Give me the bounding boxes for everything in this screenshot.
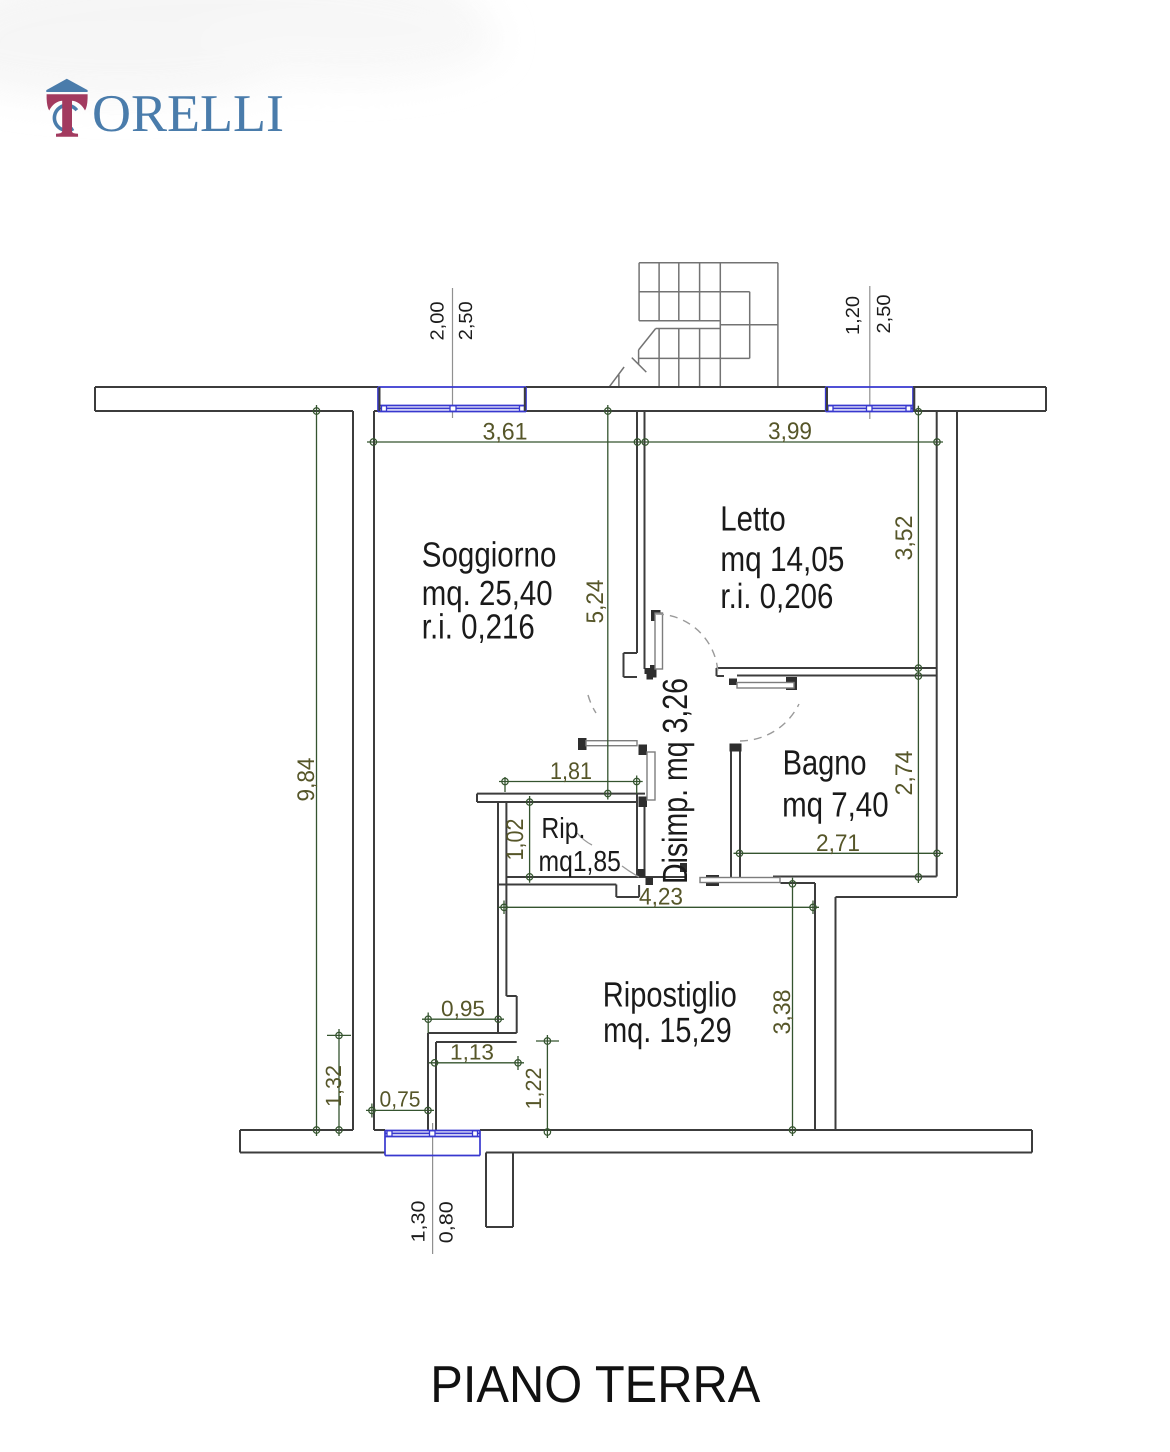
svg-text:0,95: 0,95 [441, 996, 485, 1021]
svg-text:2,71: 2,71 [816, 830, 860, 857]
svg-text:2,50: 2,50 [456, 301, 477, 340]
svg-text:mq1,85: mq1,85 [539, 846, 621, 878]
svg-text:3,61: 3,61 [483, 418, 528, 445]
svg-text:1,30: 1,30 [409, 1201, 430, 1243]
svg-text:1,13: 1,13 [450, 1040, 494, 1065]
svg-text:1,20: 1,20 [843, 296, 864, 335]
svg-text:Disimp. mq 3,26: Disimp. mq 3,26 [656, 678, 695, 884]
svg-text:2,00: 2,00 [428, 302, 449, 341]
svg-text:9,84: 9,84 [293, 758, 320, 802]
svg-text:1,02: 1,02 [502, 819, 529, 861]
svg-text:Rip.: Rip. [541, 813, 585, 845]
svg-text:Letto: Letto [720, 500, 785, 539]
svg-text:mq. 15,29: mq. 15,29 [603, 1011, 732, 1050]
svg-text:2,74: 2,74 [891, 751, 918, 796]
svg-text:ORELLI: ORELLI [92, 85, 284, 143]
svg-text:r.i. 0,206: r.i. 0,206 [720, 577, 833, 616]
svg-text:0,80: 0,80 [437, 1201, 458, 1243]
svg-text:Soggiorno: Soggiorno [422, 536, 557, 575]
svg-text:4,23: 4,23 [639, 884, 683, 911]
svg-text:2,50: 2,50 [874, 295, 895, 334]
svg-text:1,32: 1,32 [321, 1065, 346, 1107]
svg-text:0,75: 0,75 [380, 1087, 421, 1112]
svg-text:3,99: 3,99 [768, 418, 812, 445]
svg-text:1,22: 1,22 [521, 1068, 546, 1110]
svg-text:3,38: 3,38 [769, 990, 796, 1035]
svg-text:mq 14,05: mq 14,05 [720, 540, 844, 579]
svg-text:Bagno: Bagno [783, 744, 867, 783]
svg-text:Ripostiglio: Ripostiglio [603, 976, 737, 1015]
svg-text:PIANO TERRA: PIANO TERRA [430, 1356, 760, 1414]
svg-text:mq 7,40: mq 7,40 [782, 786, 889, 825]
svg-text:5,24: 5,24 [582, 580, 609, 624]
svg-text:r.i. 0,216: r.i. 0,216 [422, 608, 535, 647]
svg-text:3,52: 3,52 [891, 516, 918, 561]
svg-text:1,81: 1,81 [550, 758, 592, 785]
